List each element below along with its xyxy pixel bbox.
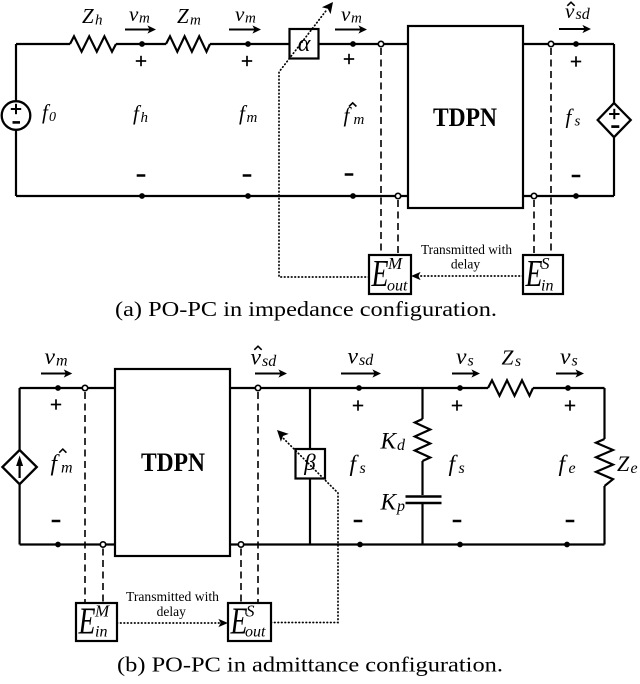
node dot [457,385,463,391]
svg-text:Z: Z [177,4,189,28]
node dot [139,41,145,47]
node dot [139,193,145,199]
node dot [245,193,251,199]
svg-text:E: E [78,600,96,642]
svg-text:h: h [95,13,103,29]
label Kp [380,490,406,516]
label vm (b) [45,344,68,370]
wire: top rail between Zh and Zm [116,43,166,45]
label vsd (b) [348,344,375,370]
ESin box [523,253,563,295]
svg-text:v: v [560,344,571,370]
TDPN block (a) [408,26,523,208]
label vm 3 [341,2,362,27]
svg-text:m: m [245,11,256,27]
svg-text:m: m [354,112,365,128]
label vsd hat [565,0,591,23]
arrow vm 3 [335,25,367,33]
node dot [350,193,356,199]
resistor Ze (vertical) [596,439,613,486]
wire: below Kp to bottom rail [421,504,423,545]
wire: bottom rail (b) [20,543,605,545]
transmitted with delay arrow (a) [411,272,523,280]
dashed line from top node to ESin [550,48,552,255]
dashed line from bottom node to EMout [397,200,399,255]
wire: left vertical above source f0 [15,44,17,101]
svg-text:v: v [129,2,139,26]
arrow vsd-hat (b) [255,369,287,377]
wire: right vertical above dependent source [613,44,615,104]
arrow vm (b) [41,369,72,377]
svg-text:in: in [95,624,107,641]
node dot [565,385,571,391]
dashed line from bottom node to ESin [533,200,535,255]
svg-text:m: m [247,110,258,126]
EMin box [76,600,117,642]
svg-text:β: β [303,450,316,475]
svg-text:E: E [371,253,389,295]
svg-text:v: v [348,344,359,370]
svg-text:S: S [541,254,550,273]
svg-text:s: s [468,353,474,370]
open node bottom rail (b) [100,542,105,547]
open node top rail (b) [82,385,87,390]
label transmitted with delay (a) [421,242,512,272]
svg-text:e: e [631,460,638,477]
svg-text:Transmitted with: Transmitted with [126,589,219,604]
svg-text:v: v [341,2,351,26]
arrow vsd (b) [341,369,381,377]
wire: beta branch vertical top [309,388,311,449]
capacitor Kp [406,497,442,504]
label vs 1 (b) [456,344,474,370]
flow source fm-hat (diamond with arrow) [2,450,36,484]
node dot [357,542,363,548]
node dot [573,193,579,199]
label Zh [82,4,103,29]
resistor Zh [70,36,116,51]
resistor Kd (vertical) [415,419,430,461]
voltage source f0 [2,101,31,130]
plus minus column fs (b) first [353,400,363,521]
svg-text:s: s [515,353,521,370]
variable element alpha box [290,29,319,59]
wire: right vertical below Ze [603,486,605,545]
label fm-hat [344,103,365,128]
label fs [566,105,581,130]
node dot [457,542,463,548]
dashed line top node to EMin [84,392,86,603]
label vs 2 (b) [560,344,578,370]
wire: top rail left segment [16,43,70,45]
svg-text:m: m [56,353,68,370]
plus minus column fm-hat (b) [51,399,61,521]
arrow vm 2 [229,25,261,33]
label fs (b) first [350,451,366,477]
plus minus column fm [242,56,252,176]
svg-text:out: out [387,278,408,295]
resistor Zs [488,380,533,395]
plus minus column fm-hat [344,54,354,175]
wire: top rail Zs to right [533,387,605,389]
svg-text:K: K [380,429,398,455]
arrow vm 1 [125,25,156,33]
svg-text:m: m [61,460,73,477]
resistor Zm [166,36,210,51]
svg-text:0: 0 [49,110,56,125]
label vsd-hat (b) [251,345,278,371]
wire: right vertical above Ze [603,388,605,439]
svg-text:S: S [246,602,255,621]
svg-text:(a) PO-PC in impedance configu: (a) PO-PC in impedance configuration. [115,297,497,321]
node dot [350,41,356,47]
svg-text:p: p [396,498,405,515]
dashed line bottom node to ESout [240,549,242,604]
ESout box [228,600,271,642]
label fh [133,101,148,126]
wire: top rail between Zm and alpha box [210,43,290,45]
label vm 2 [235,2,256,27]
svg-text:s: s [572,353,578,370]
wire: Kd branch lead [421,388,423,419]
svg-text:Z: Z [82,4,94,28]
svg-text:K: K [380,490,398,516]
svg-text:v: v [235,2,245,26]
dashed line from top node to EMout [380,48,382,255]
open node on top rail [378,41,383,46]
svg-text:m: m [139,11,150,27]
wire: top rail between TDPN and right branch [523,43,614,45]
svg-text:M: M [94,602,110,621]
open node on bottom rail [395,193,400,198]
label f0 [42,100,56,125]
svg-text:h: h [141,110,149,126]
transmitted with delay arrow (b) [117,619,228,627]
svg-text:m: m [351,11,362,27]
svg-text:delay: delay [157,604,186,619]
wire: left vertical below source fm-hat [19,483,21,545]
variable element beta box [296,449,326,479]
plus minus column fs [571,56,581,176]
svg-text:E: E [525,253,543,295]
label Kd [380,429,407,455]
control line from ESout to beta (dotted) [271,430,338,623]
svg-text:m: m [190,13,201,29]
open node on bottom rail right of TDPN [531,193,536,198]
svg-text:s: s [459,460,465,477]
svg-text:d: d [397,437,406,454]
svg-text:out: out [245,624,266,641]
svg-text:v: v [456,344,467,370]
svg-text:Transmitted with: Transmitted with [421,242,512,257]
caption (b) [117,652,503,676]
wire: top rail between alpha box and TDPN [318,43,408,45]
svg-text:delay: delay [451,257,480,272]
node dot [573,41,579,47]
open node on top rail right of TDPN [548,41,553,46]
open node bottom rail right of TDPN (b) [238,542,243,547]
dashed line bottom node to EMin [102,549,104,604]
label fs (b) second [449,451,465,477]
node dot [245,41,251,47]
svg-text:sd: sd [359,352,374,369]
plus minus column fe [565,400,575,521]
node dot [55,542,61,548]
svg-text:α: α [298,31,311,57]
node dot [55,385,61,391]
node dot [356,385,362,391]
svg-text:TDPN: TDPN [433,103,497,132]
dashed line top node to ESout [257,392,259,603]
svg-text:s: s [575,114,581,130]
svg-text:s: s [360,460,366,477]
wire: right vertical below dependent source [613,138,615,196]
dependent source (diamond) fs [598,103,631,137]
TDPN block (b) [115,369,230,556]
wire: bottom rail [16,195,614,197]
label Ze [617,451,638,477]
label Zm [177,4,201,29]
label alpha [298,31,311,57]
label Zs [502,346,522,371]
label fe [559,451,576,477]
arrow vs 1 (b) [452,369,480,377]
svg-text:Z: Z [502,346,515,370]
svg-text:(b) PO-PC in admittance config: (b) PO-PC in admittance configuration. [117,652,503,676]
plus minus column fh [136,56,146,176]
svg-text:in: in [541,278,553,295]
wire: between Kd and Kp [421,461,423,495]
wire: top rail TDPN to Zs [230,387,488,389]
wire: left vertical below source f0 [15,130,17,196]
control line from EMout to alpha (dotted) [279,2,369,277]
node dot [564,542,570,548]
arrow vsd hat [559,25,591,33]
svg-text:M: M [387,254,403,273]
label beta [303,450,316,475]
wire: left vertical above source fm-hat [19,388,21,451]
label vm 1 [129,2,150,27]
wire: top rail from source to TDPN [20,387,115,389]
label fm-hat (b) [51,449,73,476]
plus minus column fs (b) second [452,400,462,521]
svg-text:TDPN: TDPN [141,448,205,477]
open node top rail right of TDPN (b) [255,385,260,390]
EMout box [369,253,411,295]
label transmitted with delay (b) [126,589,219,619]
svg-text:e: e [569,460,576,477]
arrow vs 2 (b) [556,369,584,377]
svg-text:Z: Z [617,451,630,476]
wire: beta branch vertical bottom [309,477,311,545]
label fm [239,101,258,126]
svg-text:sd: sd [576,6,591,23]
svg-text:v: v [45,344,56,370]
svg-text:sd: sd [262,353,277,370]
caption (a) [115,297,497,321]
